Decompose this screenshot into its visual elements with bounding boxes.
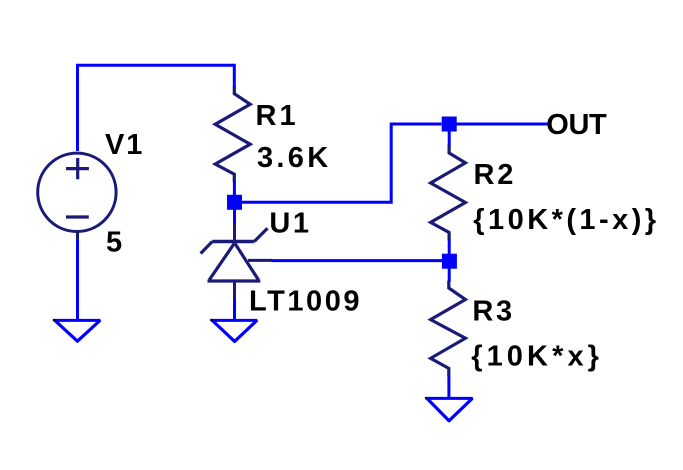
node junction R1/U1 (227, 195, 242, 210)
wire: U1 anode to ground (233, 299, 236, 320)
V1 minus sign (66, 215, 89, 218)
wire: top horizontal + V1 top vertical (78, 65, 235, 151)
svg-text:R1: R1 (256, 100, 299, 132)
resistor R2 zigzag (431, 145, 466, 241)
zener U1 anode stub (233, 281, 236, 299)
node junction R2/R3 (442, 254, 457, 269)
ground (left) (55, 319, 101, 322)
zener U1 left wing (201, 242, 213, 254)
wire: V1 to ground (76, 240, 79, 319)
zener U1 cathode bar (212, 240, 254, 243)
wire: R3 top lead (448, 261, 451, 282)
ground (right) (427, 397, 473, 400)
svg-text:OUT: OUT (546, 109, 607, 141)
wire: R1 bottom lead (233, 181, 236, 203)
svg-text:V1: V1 (105, 129, 144, 161)
svg-text:R2: R2 (474, 159, 517, 191)
svg-text:3.6K: 3.6K (257, 142, 331, 174)
ground (middle) (212, 319, 257, 322)
resistor R3 zigzag (431, 281, 466, 377)
resistor R1 zigzag (215, 87, 250, 182)
wire: junction to right, up, to OUT junction (235, 124, 442, 202)
zener U1 right wing (254, 228, 267, 241)
svg-text:{10K*(1-x)}: {10K*(1-x)} (473, 204, 659, 236)
wire: OUT junction to label (457, 123, 551, 126)
node junction OUT (442, 117, 457, 132)
wire: adj to junction 2 (272, 259, 443, 262)
V1 bottom lead stub (76, 231, 79, 241)
svg-text:R3: R3 (472, 295, 514, 327)
wire: R1 top lead (233, 64, 236, 88)
V1 plus sign (66, 158, 89, 179)
svg-text:{10K*x}: {10K*x} (471, 341, 603, 373)
zener U1 adj pin line (248, 259, 273, 262)
svg-text:LT1009: LT1009 (249, 285, 362, 317)
svg-text:5: 5 (106, 227, 122, 259)
wire: R3 to ground (447, 376, 450, 398)
wire: R2 top lead (448, 124, 451, 146)
zener U1 triangle (208, 279, 261, 282)
wire: R2 bottom lead (448, 239, 451, 261)
voltage source V1: circle (38, 153, 116, 231)
wire stub above U1 (blue) (233, 202, 236, 223)
zener U1 cathode stub (233, 202, 236, 241)
svg-text:U1: U1 (269, 208, 311, 240)
